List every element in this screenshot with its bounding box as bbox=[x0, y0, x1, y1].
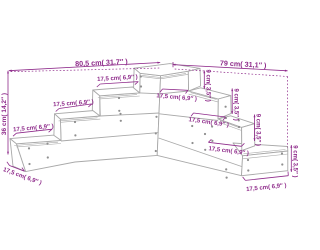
face t4 L-top bbox=[134, 64, 200, 76]
dim t4B step bbox=[163, 89, 189, 90]
svg-text:9 cm( 3,5″ ): 9 cm( 3,5″ ) bbox=[232, 89, 238, 121]
end t3A bbox=[92, 90, 100, 116]
face t3B bbox=[189, 88, 231, 99]
rim lips bbox=[16, 144, 61, 147]
svg-text:9 cm( 3,5″ ): 9 cm( 3,5″ ) bbox=[255, 114, 261, 146]
wall A bbox=[16, 73, 160, 171]
planks A bbox=[61, 133, 159, 141]
dim t3B bbox=[194, 113, 226, 117]
dim t1B bbox=[245, 176, 288, 181]
svg-text:36 cm( 14,2″ ): 36 cm( 14,2″ ) bbox=[1, 93, 8, 135]
inner rims bbox=[142, 73, 186, 77]
svg-text:9 cm( 3,5″ ): 9 cm( 3,5″ ) bbox=[205, 70, 211, 102]
dim 9cm 1 bbox=[203, 71, 205, 90]
dim endA bbox=[10, 166, 25, 172]
end t2B bbox=[242, 124, 255, 151]
dim t1A bbox=[16, 129, 52, 133]
dim 9cm 4 bbox=[290, 145, 292, 172]
dim 9cm 2 bbox=[231, 88, 233, 114]
end t2A bbox=[54, 114, 61, 141]
dim t3A bbox=[100, 82, 138, 84]
dim t2B bbox=[208, 142, 241, 146]
dim 79 bbox=[173, 65, 288, 71]
dim 80.5 bbox=[9, 63, 160, 71]
face t1A bbox=[10, 135, 61, 144]
dim 36 bbox=[7, 71, 9, 155]
dim t2A bbox=[59, 104, 92, 109]
band t1B bbox=[242, 151, 288, 176]
screws bbox=[28, 147, 30, 149]
face t2A bbox=[55, 111, 101, 120]
end t4A bbox=[134, 68, 141, 93]
svg-text:9 cm( 3,5″ ): 9 cm( 3,5″ ) bbox=[292, 145, 298, 177]
face t2B bbox=[218, 116, 254, 128]
wall B bbox=[157, 71, 242, 176]
planks B bbox=[159, 138, 242, 167]
dim 9cm 3 bbox=[254, 115, 256, 142]
face t1B bbox=[233, 143, 288, 156]
face t3A bbox=[93, 87, 140, 96]
end t4B bbox=[188, 68, 200, 91]
end t1A bbox=[10, 139, 26, 172]
end t3B bbox=[218, 96, 231, 119]
